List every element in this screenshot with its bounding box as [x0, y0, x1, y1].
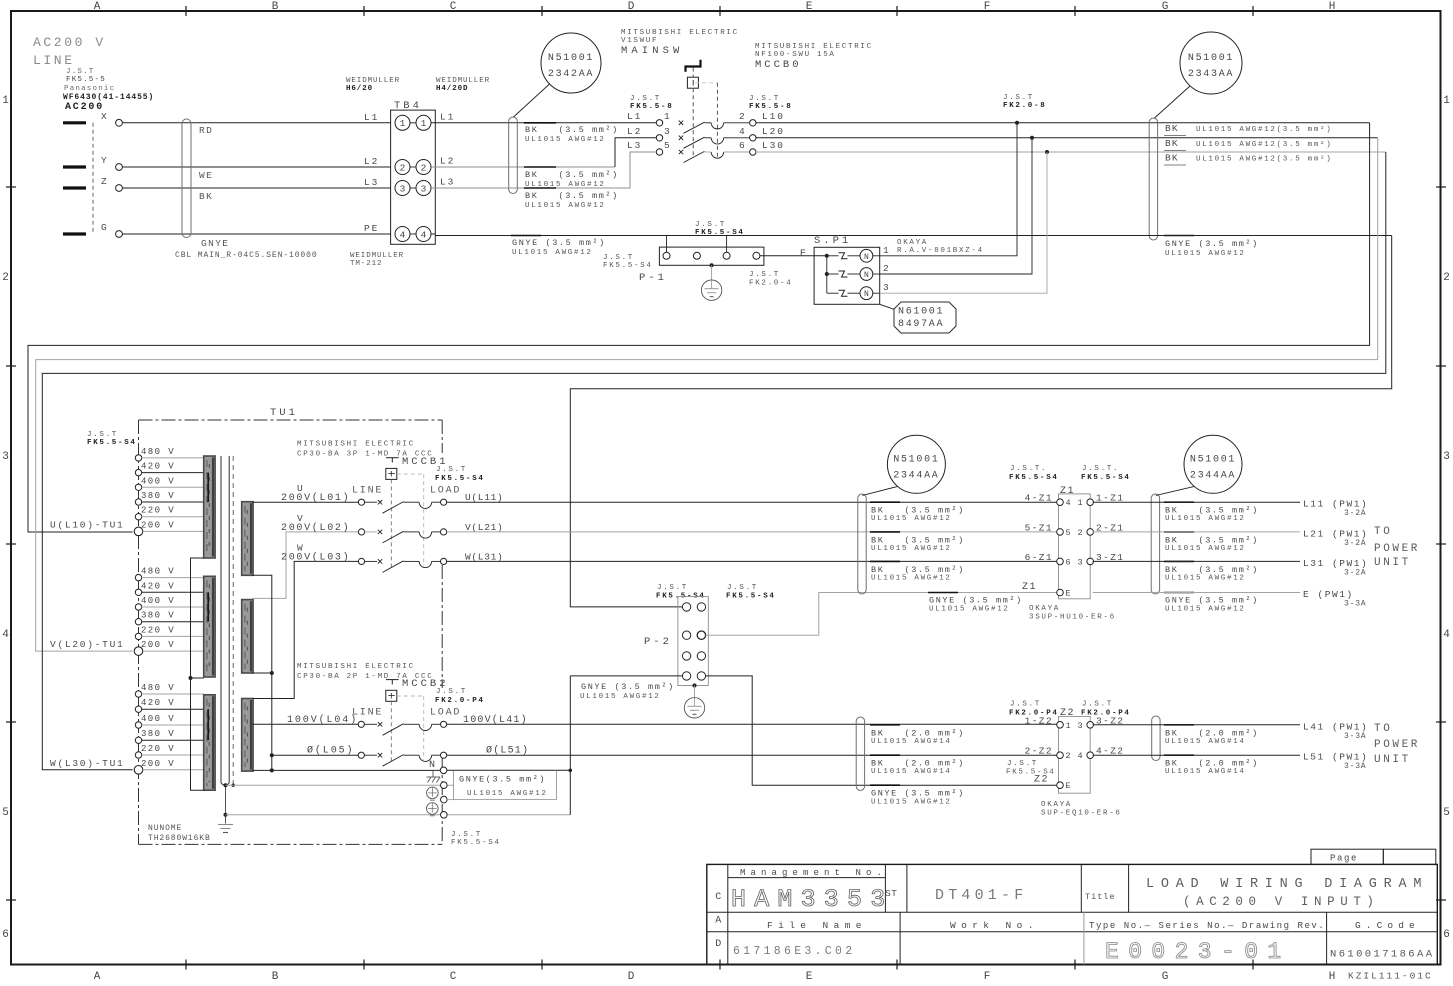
breaker MCCB2 MITSUBISHI CP30-BA 2P	[297, 663, 485, 762]
MCCB2 pole 2	[307, 745, 529, 767]
svg-text:D: D	[628, 1, 635, 13]
svg-text:X: X	[101, 111, 107, 122]
MCCB1 pole W	[281, 542, 503, 572]
svg-text:G: G	[101, 222, 107, 233]
wire label marker GNYE Z2	[870, 784, 900, 786]
svg-text:OKAYA: OKAYA	[1029, 605, 1060, 613]
connector Z1 OKAYA 3SUP-HU10-ER-6	[1009, 465, 1131, 599]
svg-text:FK2.0-4: FK2.0-4	[749, 280, 792, 288]
MCCB2 pole 1	[287, 714, 528, 736]
cable marker Z1 left	[858, 494, 866, 594]
input terminal Z	[63, 176, 122, 191]
svg-text:2: 2	[1078, 528, 1083, 538]
wire label marker Z1	[870, 560, 900, 562]
svg-text:1: 1	[2, 95, 9, 107]
svg-text:200V(L03): 200V(L03)	[281, 551, 350, 563]
svg-text:B: B	[272, 971, 279, 983]
svg-text:D: D	[715, 939, 721, 950]
wire SP1 row2 to L20	[880, 138, 1032, 274]
svg-text:G.Code: G.Code	[1355, 920, 1420, 931]
wire PE transformer to PE3	[226, 814, 571, 816]
svg-text:V(L20)-TU1: V(L20)-TU1	[50, 639, 125, 650]
svg-text:MITSUBISHI ELECTRIC: MITSUBISHI ELECTRIC	[621, 29, 739, 37]
svg-text:BK (2.0 mm²): BK (2.0 mm²)	[1165, 759, 1259, 769]
svg-text:G: G	[1162, 971, 1169, 983]
svg-text:L11 (PW1): L11 (PW1)	[1303, 499, 1368, 510]
connector J1 J.S.T FK5.5-5 Panasonic WF6430 AC200 labels	[63, 68, 154, 113]
wire output L11 (PW1)	[1093, 499, 1369, 519]
input terminal X	[63, 111, 122, 126]
svg-text:RD: RD	[199, 125, 213, 136]
wire output E (PW1)	[1093, 589, 1367, 609]
svg-text:BK (3.5 mm²): BK (3.5 mm²)	[525, 125, 619, 135]
svg-text:200 V: 200 V	[141, 520, 175, 530]
svg-text:GNYE: GNYE	[201, 238, 229, 249]
wire 0 L51 to Z2	[447, 754, 1058, 756]
MAINSW pole L2	[627, 126, 785, 149]
svg-text:Y: Y	[101, 155, 107, 166]
svg-text:GNYE(3.5 mm²): GNYE(3.5 mm²)	[459, 775, 546, 785]
svg-text:LOAD: LOAD	[430, 486, 461, 497]
wire label marker GNYE PE	[511, 235, 541, 237]
svg-text:UL1015 AWG#12: UL1015 AWG#12	[871, 515, 952, 523]
svg-text:BK: BK	[1165, 123, 1179, 134]
TB4 terminal 1 row L1	[364, 111, 455, 130]
svg-text:UL1015 AWG#12: UL1015 AWG#12	[1165, 545, 1246, 553]
svg-text:2342AA: 2342AA	[548, 69, 594, 80]
svg-text:3: 3	[1443, 451, 1450, 463]
svg-text:1: 1	[883, 245, 889, 256]
wire PE from TB4	[431, 233, 435, 235]
winding tap tie V	[207, 592, 209, 621]
svg-text:3: 3	[1078, 557, 1083, 567]
wire label BK L20	[1164, 138, 1332, 151]
svg-text:3: 3	[2, 451, 9, 463]
svg-text:3-2A: 3-2A	[1344, 539, 1366, 548]
svg-text:BK (3.5 mm²): BK (3.5 mm²)	[1165, 506, 1259, 516]
svg-text:Panasonic: Panasonic	[64, 85, 115, 93]
junction L20 SP1 tap	[1030, 136, 1034, 140]
Z1 pin E	[1022, 582, 1071, 599]
svg-text:FK5.5-S4: FK5.5-S4	[603, 262, 653, 270]
svg-text:3: 3	[400, 183, 406, 194]
wire label marker L2	[524, 166, 556, 168]
svg-text:J.S.T: J.S.T	[695, 221, 726, 229]
svg-text:200 V: 200 V	[141, 640, 175, 650]
svg-text:E: E	[1066, 781, 1071, 791]
wire 100V L41 to Z2	[447, 723, 1058, 725]
svg-text:UL1015 AWG#12: UL1015 AWG#12	[871, 545, 952, 553]
TU1 shield dashed	[232, 456, 234, 785]
svg-text:BK (2.0 mm²): BK (2.0 mm²)	[871, 759, 965, 769]
wire P-2 row4 left	[570, 675, 682, 677]
svg-text:UL1015 AWG#12: UL1015 AWG#12	[525, 136, 606, 144]
Z1 pin pair 6-3	[1025, 552, 1125, 568]
wire secondary common chain	[252, 575, 271, 770]
svg-text:2: 2	[739, 111, 745, 122]
TU1 primary winding U	[204, 456, 215, 558]
svg-text:A: A	[94, 971, 101, 983]
svg-text:OKAYA: OKAYA	[897, 239, 928, 247]
svg-text:200 V: 200 V	[141, 759, 175, 769]
TU1 primary tap 220 V V	[135, 625, 203, 639]
svg-text:UL1015 AWG#12: UL1015 AWG#12	[1165, 515, 1246, 523]
svg-text:L3: L3	[627, 140, 642, 151]
breaker MCCB0 MITSUBISHI NF100-SWU 15A	[755, 43, 873, 71]
svg-text:J.S.T: J.S.T	[1082, 701, 1113, 709]
MAINSW pole L1	[627, 111, 785, 134]
svg-text:4: 4	[1066, 498, 1071, 508]
svg-text:6: 6	[1066, 557, 1071, 567]
svg-text:FK5.5-S4: FK5.5-S4	[451, 839, 501, 847]
svg-text:1: 1	[1443, 95, 1450, 107]
svg-text:PE: PE	[364, 223, 379, 234]
TB4 terminal 2 row L2	[364, 156, 455, 175]
wire L2 TB4 to MAINSW	[431, 138, 656, 167]
svg-text:L1: L1	[364, 112, 379, 123]
svg-text:400 V: 400 V	[141, 714, 175, 724]
svg-text:L31 (PW1): L31 (PW1)	[1303, 558, 1368, 569]
ground earth circle P-1	[701, 265, 721, 300]
svg-text:6-Z1: 6-Z1	[1025, 552, 1053, 563]
MCCB2 terminal N	[429, 760, 447, 774]
PE terminal 3	[441, 812, 448, 819]
svg-text:4: 4	[2, 629, 9, 641]
svg-text:FK5.5-S4: FK5.5-S4	[1081, 474, 1131, 482]
svg-text:F: F	[984, 971, 991, 983]
svg-text:N61001: N61001	[898, 307, 944, 318]
svg-text:J.S.T.: J.S.T.	[1082, 465, 1119, 473]
TU1 primary tap 480 V V	[135, 567, 203, 581]
svg-text:3-3A: 3-3A	[1344, 600, 1366, 609]
balloon N51001 2342AA	[514, 33, 602, 117]
svg-text:E0023-01: E0023-01	[1105, 939, 1291, 965]
svg-text:FK2.0-8: FK2.0-8	[1003, 102, 1046, 110]
wire label marker Z1	[870, 501, 900, 503]
svg-text:617186E3.C02: 617186E3.C02	[733, 945, 855, 958]
svg-text:L3: L3	[440, 177, 455, 188]
svg-text:420 V: 420 V	[141, 581, 175, 591]
wire N to PE loop	[447, 769, 570, 771]
wire L3 TB4 to MAINSW	[431, 152, 656, 188]
svg-text:TH2680W16KB: TH2680W16KB	[148, 834, 211, 843]
svg-text:FK2.0-P4: FK2.0-P4	[435, 697, 485, 705]
svg-text:UL1015 AWG#12: UL1015 AWG#12	[929, 606, 1010, 614]
junction earth wire B	[224, 813, 228, 817]
junction P-1 ground	[710, 263, 714, 267]
svg-text:UL1015 AWG#12: UL1015 AWG#12	[1165, 250, 1246, 258]
svg-text:Z1: Z1	[1022, 582, 1037, 593]
svg-text:J.S.T: J.S.T	[436, 466, 467, 474]
junction secondary chain O	[270, 753, 274, 757]
svg-text:B: B	[272, 1, 279, 13]
arrester element 3	[827, 282, 889, 299]
svg-text:480 V: 480 V	[141, 447, 175, 457]
svg-text:420 V: 420 V	[141, 698, 175, 708]
svg-text:WF6430(41-14455): WF6430(41-14455)	[63, 93, 154, 102]
svg-text:BK (3.5 mm²): BK (3.5 mm²)	[871, 506, 965, 516]
svg-text:(AC200 V INPUT): (AC200 V INPUT)	[1183, 895, 1380, 909]
Z2 pin pair 1-3	[1025, 715, 1125, 731]
svg-text:2: 2	[2, 272, 9, 284]
svg-text:E (PW1): E (PW1)	[1303, 589, 1354, 600]
MAINSW mechanism dashed links	[693, 68, 717, 159]
TU1 primary tap 480 V U	[135, 447, 203, 461]
svg-text:BK (3.5 mm²): BK (3.5 mm²)	[525, 191, 619, 201]
svg-text:N: N	[864, 271, 869, 280]
svg-text:UL1015 AWG#12: UL1015 AWG#12	[580, 693, 661, 701]
wire net L20 rail to TU1 V	[36, 138, 1378, 651]
svg-text:FK5.5-S4: FK5.5-S4	[695, 229, 745, 237]
svg-text:UL1015 AWG#12: UL1015 AWG#12	[871, 574, 952, 582]
svg-text:2344AA: 2344AA	[893, 470, 939, 481]
svg-text:SUP-EQ10-ER-6: SUP-EQ10-ER-6	[1041, 810, 1122, 818]
svg-text:MITSUBISHI ELECTRIC: MITSUBISHI ELECTRIC	[755, 43, 873, 51]
svg-text:F: F	[984, 1, 991, 13]
wire W(L31) to Z1	[447, 560, 1058, 562]
svg-text:UL1015 AWG#12: UL1015 AWG#12	[1165, 574, 1246, 582]
svg-text:N51001: N51001	[1188, 53, 1234, 64]
svg-text:POWER: POWER	[1374, 739, 1420, 751]
svg-text:J.S.T: J.S.T	[1010, 701, 1041, 709]
svg-text:N51001: N51001	[893, 454, 939, 465]
svg-text:L1: L1	[440, 111, 455, 122]
wire X to TB4 L1	[122, 122, 390, 124]
svg-text:4: 4	[739, 126, 745, 137]
MCCB1 pole V	[281, 513, 503, 543]
svg-text:Type No.— Series No.— Drawing: Type No.— Series No.— Drawing Rev.	[1089, 921, 1325, 931]
svg-text:MCCB0: MCCB0	[755, 59, 802, 71]
PE terminal 1	[441, 782, 448, 789]
svg-text:WEIDMULLER: WEIDMULLER	[350, 252, 404, 260]
svg-text:L1: L1	[627, 111, 642, 122]
svg-text:Work No.: Work No.	[950, 920, 1039, 931]
TU1 core	[221, 456, 229, 785]
TU1 secondary winding V	[242, 600, 253, 673]
junction secondary chain S2	[270, 671, 274, 675]
svg-text:P-1: P-1	[639, 272, 667, 284]
svg-text:4-Z1: 4-Z1	[1025, 493, 1053, 504]
svg-text:FK5.5-S4: FK5.5-S4	[1009, 474, 1059, 482]
svg-text:J.S.T.: J.S.T.	[1010, 465, 1047, 473]
svg-text:V1SWUF: V1SWUF	[621, 37, 658, 45]
svg-text:C: C	[450, 1, 457, 13]
wire E P-1 to S.P1	[760, 255, 827, 257]
svg-text:BK (3.5 mm²): BK (3.5 mm²)	[1165, 535, 1259, 545]
wire label marker Z1	[870, 531, 900, 533]
svg-text:4: 4	[400, 229, 406, 240]
wire label BK L10	[1164, 123, 1332, 136]
svg-text:H: H	[1329, 1, 1336, 13]
svg-text:HAM3353: HAM3353	[731, 885, 893, 914]
input terminal Y	[63, 155, 122, 170]
svg-text:3: 3	[664, 126, 670, 137]
svg-text:J.S.T: J.S.T	[727, 584, 758, 592]
svg-text:FK5.5-8: FK5.5-8	[630, 103, 673, 111]
svg-text:C: C	[715, 892, 721, 903]
svg-text:J.S.T: J.S.T	[749, 271, 780, 279]
cable marker Z2 left	[856, 717, 864, 790]
svg-text:BK (3.5 mm²): BK (3.5 mm²)	[871, 535, 965, 545]
svg-text:GNYE (3.5 mm²): GNYE (3.5 mm²)	[512, 238, 606, 248]
svg-text:J.S.T: J.S.T	[436, 688, 467, 696]
svg-text:L2: L2	[364, 156, 379, 167]
svg-text:6: 6	[739, 140, 745, 151]
TU1 primary tap 380 V W	[135, 729, 203, 743]
TU1 earth connections	[218, 785, 233, 832]
svg-text:UL1015 AWG#12: UL1015 AWG#12	[512, 249, 593, 257]
svg-text:3-2A: 3-2A	[1344, 509, 1366, 518]
wire output L21 (PW1)	[1093, 528, 1369, 548]
svg-text:L3: L3	[364, 177, 379, 188]
wire V(L21) to Z1	[447, 531, 1058, 533]
svg-text:8497AA: 8497AA	[898, 319, 944, 330]
TU1 primary tap 220 V U	[135, 506, 203, 520]
svg-text:1: 1	[421, 118, 427, 129]
svg-text:GNYE (3.5 mm²): GNYE (3.5 mm²)	[1165, 239, 1259, 249]
svg-text:400 V: 400 V	[141, 476, 175, 486]
earth symbol 2	[427, 803, 439, 815]
TU1 secondary winding W	[242, 699, 253, 772]
svg-text:KZIL111-01C: KZIL111-01C	[1348, 971, 1433, 982]
svg-text:1: 1	[1066, 721, 1071, 731]
TU1 primary tap 380 V U	[135, 491, 203, 505]
svg-text:J.S.T: J.S.T	[603, 254, 634, 262]
connector Z2 OKAYA SUP-EQ10-ER-6	[1009, 701, 1131, 794]
connector P-1	[603, 221, 792, 288]
svg-text:FK5.5-5: FK5.5-5	[66, 76, 106, 84]
svg-text:1-Z2: 1-Z2	[1025, 715, 1053, 726]
svg-text:2-Z2: 2-Z2	[1025, 746, 1053, 757]
wire PE transformer to PE1	[226, 784, 454, 786]
svg-text:V(L21): V(L21)	[465, 522, 503, 533]
svg-text:380 V: 380 V	[141, 729, 175, 739]
wire 100V L04	[252, 723, 358, 725]
svg-text:GNYE (3.5 mm²): GNYE (3.5 mm²)	[929, 596, 1023, 606]
svg-text:FK5.5-S4: FK5.5-S4	[435, 475, 485, 483]
svg-text:220 V: 220 V	[141, 506, 175, 516]
label TO POWER UNIT Z1	[1374, 526, 1420, 569]
cable marker Z2 right	[1152, 716, 1160, 761]
svg-text:L10: L10	[762, 111, 785, 122]
svg-text:2: 2	[1443, 272, 1450, 284]
svg-text:420 V: 420 V	[141, 462, 175, 472]
svg-text:L51 (PW1): L51 (PW1)	[1303, 752, 1368, 763]
terminal block TB4	[346, 77, 490, 268]
label box GNYE 3.5mm	[454, 770, 557, 799]
svg-text:Management No.: Management No.	[740, 868, 887, 878]
wire L30 run	[756, 151, 1386, 153]
label TO POWER UNIT Z2	[1374, 723, 1420, 766]
svg-text:D: D	[628, 971, 635, 983]
wire Y to TB4 L2	[122, 166, 390, 168]
svg-text:BK (3.5 mm²): BK (3.5 mm²)	[1165, 565, 1259, 575]
svg-text:BK: BK	[199, 191, 213, 202]
svg-text:WEIDMULLER: WEIDMULLER	[436, 77, 490, 85]
svg-text:100V(L04): 100V(L04)	[287, 714, 358, 726]
svg-text:1: 1	[1078, 498, 1083, 508]
svg-text:3-3A: 3-3A	[1344, 732, 1366, 741]
wire label marker Z2	[870, 754, 900, 756]
svg-text:J.S.T: J.S.T	[657, 584, 688, 592]
svg-text:Ø(L05): Ø(L05)	[307, 745, 354, 757]
node AC200V LINE label	[33, 35, 106, 68]
wire W 200V L03	[252, 561, 358, 698]
svg-text:1: 1	[664, 111, 670, 122]
svg-text:3SUP-HU10-ER-6: 3SUP-HU10-ER-6	[1029, 614, 1116, 622]
svg-text:BK (2.0 mm²): BK (2.0 mm²)	[1165, 728, 1259, 738]
wire output L51 (PW1)	[1093, 752, 1369, 772]
svg-text:J.S.T: J.S.T	[630, 95, 661, 103]
svg-text:AC200 V: AC200 V	[33, 35, 106, 50]
earth symbol 1	[427, 787, 439, 799]
svg-text:480 V: 480 V	[141, 567, 175, 577]
svg-text:380 V: 380 V	[141, 491, 175, 501]
TU1 primary tap 220 V W	[135, 744, 203, 758]
svg-text:J.S.T: J.S.T	[87, 431, 118, 439]
wire label marker GNYE Z1	[928, 592, 958, 594]
surge protector S.P1	[814, 235, 880, 304]
wire SP1 row1 to L10	[880, 123, 1017, 256]
svg-text:WEIDMULLER: WEIDMULLER	[346, 77, 400, 85]
svg-text:6: 6	[1443, 929, 1450, 941]
svg-text:FK5.5-S4: FK5.5-S4	[1006, 769, 1056, 777]
svg-text:400 V: 400 V	[141, 596, 175, 606]
svg-text:W(L31): W(L31)	[465, 551, 503, 562]
junction neutral	[270, 768, 274, 772]
svg-text:R.A.V-801BXZ-4: R.A.V-801BXZ-4	[897, 247, 984, 255]
svg-text:GNYE (3.5 mm²): GNYE (3.5 mm²)	[581, 682, 675, 692]
svg-text:DT401-F: DT401-F	[935, 887, 1027, 904]
balloon N51001 2344AA right	[1156, 435, 1242, 495]
junction N loop	[569, 769, 573, 773]
svg-text:3: 3	[883, 282, 889, 293]
svg-text:BK: BK	[1165, 138, 1179, 149]
wire V 200V L02	[252, 532, 358, 599]
svg-text:W(L30)-TU1: W(L30)-TU1	[50, 758, 125, 769]
TU1 primary tap 420 V V	[135, 581, 203, 595]
TU1 primary tap 400 V W	[135, 714, 203, 728]
wire output L41 (PW1)	[1093, 721, 1369, 741]
svg-text:N51001: N51001	[1190, 454, 1236, 465]
MAINSW trip unit box	[687, 77, 698, 88]
svg-text:2343AA: 2343AA	[1188, 69, 1234, 80]
wire label marker GNYE right	[1164, 235, 1194, 237]
svg-text:2: 2	[400, 162, 406, 173]
wire primary common tie	[191, 558, 204, 790]
MCCB1 pole U	[281, 483, 503, 513]
svg-text:Title: Title	[1085, 892, 1116, 902]
wire L1 TB4 to MAINSW	[431, 122, 656, 124]
cable screen dashed link	[92, 123, 94, 234]
svg-text:MITSUBISHI ELECTRIC: MITSUBISHI ELECTRIC	[297, 663, 415, 671]
svg-text:BK: BK	[1165, 153, 1179, 164]
wire label marker Z2	[870, 724, 900, 726]
svg-text:LOAD: LOAD	[430, 708, 461, 719]
svg-text:UL1015 AWG#12: UL1015 AWG#12	[467, 790, 548, 798]
svg-text:G: G	[1162, 1, 1169, 13]
svg-text:TU1: TU1	[270, 407, 298, 419]
winding tap tie W	[207, 709, 209, 740]
svg-text:Z1: Z1	[1060, 486, 1075, 497]
TU1 primary tap 480 V W	[135, 683, 203, 697]
svg-text:LINE: LINE	[352, 486, 383, 497]
svg-text:WE: WE	[199, 170, 213, 181]
svg-text:Z2: Z2	[1060, 708, 1075, 719]
PE terminal 2	[441, 796, 454, 803]
svg-text:FK5.5-S4: FK5.5-S4	[87, 439, 137, 447]
svg-text:L20: L20	[762, 126, 785, 137]
